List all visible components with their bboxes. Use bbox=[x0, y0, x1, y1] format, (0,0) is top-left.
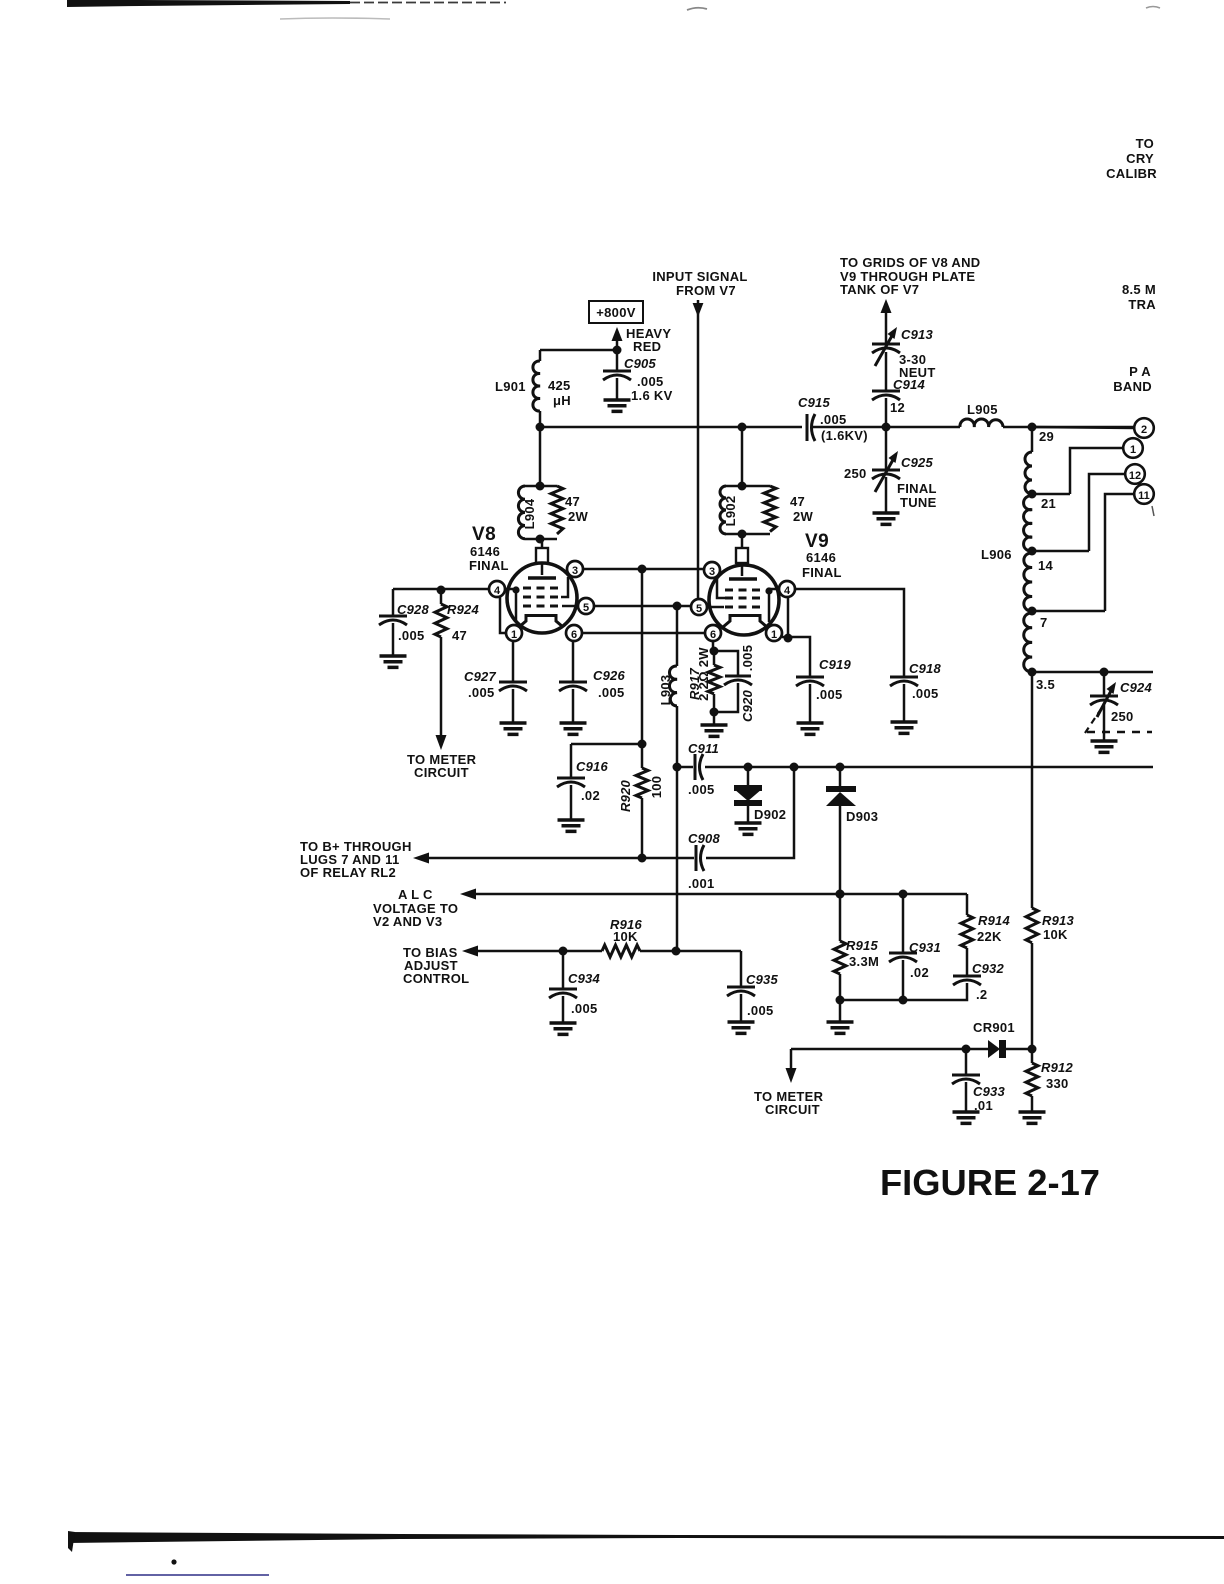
scan bar bottom bbox=[68, 1532, 680, 1543]
junction bbox=[836, 996, 845, 1005]
wire bbox=[712, 641, 715, 651]
wire bbox=[885, 427, 888, 470]
wire bbox=[769, 589, 779, 622]
svg-text:.005: .005 bbox=[571, 1001, 598, 1016]
wire bbox=[1031, 1049, 1034, 1063]
svg-text:3.3M: 3.3M bbox=[849, 954, 879, 969]
wire bbox=[885, 477, 888, 513]
junction bbox=[171, 1559, 176, 1564]
svg-text:29: 29 bbox=[1039, 429, 1054, 444]
symbol stroke bbox=[559, 681, 587, 684]
svg-text:47: 47 bbox=[565, 494, 580, 509]
ground bbox=[550, 1023, 577, 1034]
solid bar bbox=[734, 800, 762, 806]
svg-text:250: 250 bbox=[1111, 709, 1134, 724]
V8 pin4 left bus with junction bbox=[393, 586, 489, 595]
pin4 internal bbox=[505, 589, 516, 622]
svg-text:C926: C926 bbox=[593, 668, 625, 683]
svg-text:R915: R915 bbox=[846, 938, 878, 953]
grid choke L903 bbox=[658, 606, 677, 952]
wire bbox=[839, 894, 842, 941]
svg-text:L904: L904 bbox=[522, 498, 537, 529]
svg-text:C914: C914 bbox=[893, 377, 925, 392]
svg-text:1: 1 bbox=[1130, 444, 1136, 456]
junction bbox=[962, 1045, 971, 1054]
ground bbox=[1091, 741, 1118, 752]
svg-text:12: 12 bbox=[1129, 470, 1141, 482]
arrowhead bbox=[693, 303, 704, 317]
junction bbox=[899, 890, 908, 899]
svg-text:TUNE: TUNE bbox=[900, 495, 937, 510]
svg-text:4: 4 bbox=[494, 585, 501, 597]
pin circle bbox=[691, 599, 707, 615]
symbol stroke bbox=[1026, 1063, 1038, 1096]
svg-text:C913: C913 bbox=[901, 327, 933, 342]
svg-text:12: 12 bbox=[890, 400, 905, 415]
resistor R914 and C932 bbox=[961, 894, 1010, 976]
wire bbox=[525, 486, 557, 539]
junction bbox=[673, 763, 682, 772]
wire bbox=[706, 767, 794, 858]
svg-text:3: 3 bbox=[572, 565, 578, 577]
tube V9 6146 bbox=[691, 531, 842, 641]
wire bbox=[641, 798, 644, 858]
trimmer C913 bbox=[872, 299, 936, 380]
inductor L906 with taps bbox=[981, 427, 1105, 692]
wire bbox=[809, 684, 812, 723]
wire bbox=[1032, 427, 1134, 428]
wire bbox=[740, 951, 743, 987]
junction bbox=[638, 565, 647, 574]
tube V8 6146 bbox=[469, 524, 594, 641]
svg-text:P A: P A bbox=[1129, 364, 1151, 379]
symbol stroke bbox=[557, 777, 585, 780]
wire bbox=[1032, 493, 1070, 496]
terminal 11 bbox=[1105, 484, 1154, 611]
solid bar bbox=[826, 786, 856, 792]
V9 grid choke L902 with 47 ohm 2W resistor bbox=[720, 427, 814, 539]
symbol stroke bbox=[727, 991, 755, 996]
svg-text:3: 3 bbox=[709, 566, 715, 578]
ground bbox=[953, 1112, 980, 1123]
arrowhead bbox=[436, 735, 447, 750]
svg-text:L901: L901 bbox=[495, 379, 526, 394]
symbol stroke bbox=[872, 395, 900, 400]
wire bbox=[440, 637, 443, 736]
trimmer C925 final tune bbox=[844, 427, 937, 524]
svg-text:R924: R924 bbox=[447, 602, 479, 617]
svg-text:47: 47 bbox=[452, 628, 467, 643]
wire bbox=[839, 974, 842, 1022]
wire bbox=[541, 539, 544, 548]
symbol stroke bbox=[557, 782, 585, 787]
svg-text:(1.6KV): (1.6KV) bbox=[821, 428, 868, 443]
capacitor C920 bbox=[714, 645, 755, 722]
svg-text:FINAL: FINAL bbox=[802, 565, 842, 580]
symbol stroke bbox=[701, 845, 705, 871]
wire bbox=[562, 951, 565, 989]
symbol stroke bbox=[890, 681, 918, 686]
capacitor C931 bbox=[889, 894, 941, 1005]
svg-text:2W: 2W bbox=[568, 509, 589, 524]
resistor R913 bbox=[1026, 908, 1074, 943]
junction bbox=[710, 647, 719, 656]
svg-text:L906: L906 bbox=[981, 547, 1012, 562]
wire bbox=[539, 427, 542, 486]
svg-text:R920: R920 bbox=[618, 779, 633, 811]
svg-text:6: 6 bbox=[710, 629, 716, 641]
diode triangle bbox=[826, 792, 856, 806]
arrowhead bbox=[462, 946, 478, 957]
wire bbox=[428, 857, 694, 860]
svg-text:C905: C905 bbox=[624, 356, 656, 371]
capacitor C915 bbox=[798, 395, 868, 443]
symbol stroke bbox=[603, 375, 631, 380]
svg-text:3.5: 3.5 bbox=[1036, 677, 1055, 692]
ground bbox=[891, 722, 918, 733]
junction bbox=[744, 763, 753, 772]
svg-text:D903: D903 bbox=[846, 809, 878, 824]
ground bbox=[797, 723, 824, 734]
capacitor C928 bbox=[379, 589, 429, 667]
wire bbox=[540, 426, 802, 429]
wire bbox=[1103, 703, 1106, 741]
solid bar bbox=[999, 1040, 1006, 1058]
wire bbox=[1032, 671, 1153, 674]
symbol stroke bbox=[1024, 496, 1032, 551]
svg-text:+800V: +800V bbox=[596, 305, 635, 320]
symbol stroke bbox=[872, 469, 900, 472]
wire bbox=[1006, 1048, 1032, 1051]
ground bbox=[500, 723, 527, 734]
wire bbox=[570, 744, 573, 778]
svg-text:.005: .005 bbox=[637, 374, 664, 389]
grids (dashed) bbox=[523, 588, 561, 606]
svg-text:L902: L902 bbox=[723, 496, 738, 527]
wire bbox=[1105, 494, 1134, 611]
svg-text:D902: D902 bbox=[754, 807, 786, 822]
svg-text:1: 1 bbox=[511, 629, 517, 641]
wire bbox=[512, 641, 515, 682]
box bbox=[589, 301, 643, 323]
ground bbox=[604, 400, 631, 411]
capacitor C905 bbox=[603, 350, 673, 411]
svg-text:10K: 10K bbox=[1043, 927, 1068, 942]
svg-text:V9: V9 bbox=[805, 531, 829, 552]
svg-text:C931: C931 bbox=[909, 940, 941, 955]
symbol stroke bbox=[806, 414, 809, 441]
wire bbox=[795, 589, 904, 677]
svg-text:.005: .005 bbox=[912, 686, 939, 701]
svg-text:CIRCUIT: CIRCUIT bbox=[414, 765, 469, 780]
svg-text:7: 7 bbox=[1040, 615, 1048, 630]
svg-text:R912: R912 bbox=[1041, 1060, 1073, 1075]
wire bbox=[885, 311, 888, 344]
capacitor C932 bbox=[840, 961, 1004, 1002]
svg-text:1: 1 bbox=[771, 629, 777, 641]
capacitor C919 bbox=[782, 597, 851, 734]
svg-text:14: 14 bbox=[1038, 558, 1054, 573]
wire bbox=[839, 767, 842, 787]
wire bbox=[902, 894, 905, 953]
svg-text:V2 AND V3: V2 AND V3 bbox=[373, 914, 442, 929]
symbol stroke bbox=[1025, 452, 1032, 494]
grid to pin5 bbox=[562, 605, 578, 608]
svg-text:47: 47 bbox=[790, 494, 805, 509]
wire bbox=[813, 426, 960, 429]
wire bbox=[717, 578, 725, 598]
wire bbox=[572, 641, 575, 682]
wire bbox=[676, 606, 679, 666]
wire bbox=[539, 350, 542, 361]
svg-text:INPUT SIGNAL: INPUT SIGNAL bbox=[652, 269, 747, 284]
symbol stroke bbox=[700, 754, 704, 780]
wire bbox=[787, 597, 790, 638]
svg-text:C911: C911 bbox=[688, 741, 719, 756]
wire bbox=[1031, 943, 1034, 1049]
wire bbox=[965, 1082, 968, 1112]
svg-text:5: 5 bbox=[583, 602, 589, 614]
junction bbox=[836, 890, 845, 899]
svg-text:TO GRIDS OF V8 AND: TO GRIDS OF V8 AND bbox=[840, 255, 980, 270]
wire bbox=[741, 563, 744, 576]
junction bbox=[790, 763, 799, 772]
wire bbox=[1070, 448, 1123, 494]
terminal 2 bbox=[1032, 418, 1154, 444]
wire bbox=[676, 706, 679, 952]
symbol stroke bbox=[952, 1079, 980, 1084]
wire bbox=[747, 806, 750, 823]
solid bar bbox=[680, 1535, 1224, 1539]
ground bbox=[701, 725, 728, 736]
symbol stroke bbox=[953, 980, 981, 985]
symbol stroke bbox=[499, 681, 527, 684]
ground bbox=[873, 513, 900, 524]
wire bbox=[1032, 550, 1089, 553]
wire bbox=[1089, 474, 1125, 551]
symbol stroke bbox=[533, 361, 540, 411]
symbol stroke bbox=[669, 666, 677, 706]
svg-text:CALIBR: CALIBR bbox=[1106, 166, 1157, 181]
wire bbox=[475, 893, 967, 896]
svg-text:OF RELAY RL2: OF RELAY RL2 bbox=[300, 865, 396, 880]
figure caption bbox=[880, 1162, 1100, 1203]
pin 4 to pin 1 link bbox=[500, 597, 506, 633]
wire bbox=[714, 683, 738, 712]
svg-text:C928: C928 bbox=[397, 602, 429, 617]
svg-text:11: 11 bbox=[1138, 490, 1150, 502]
capacitor C918 bbox=[795, 589, 941, 733]
resistor R912 bbox=[1019, 1049, 1074, 1123]
wire bbox=[1103, 672, 1106, 696]
symbol stroke bbox=[812, 414, 816, 441]
svg-text:C925: C925 bbox=[901, 455, 933, 470]
wire bbox=[1031, 427, 1034, 452]
svg-text:.005: .005 bbox=[598, 685, 625, 700]
pin circle bbox=[1123, 438, 1143, 458]
PA tank output bus bbox=[1032, 668, 1153, 677]
solid bar bbox=[68, 1531, 75, 1552]
wire bbox=[641, 744, 644, 768]
resistor R924 to meter bbox=[407, 590, 479, 780]
pin circle bbox=[766, 625, 782, 641]
svg-text:C934: C934 bbox=[568, 971, 600, 986]
solid bar bbox=[734, 785, 762, 791]
svg-text:BAND: BAND bbox=[1113, 379, 1152, 394]
B+ feed line with C908 bbox=[300, 767, 794, 880]
plate bbox=[541, 563, 544, 575]
pin circles bbox=[567, 561, 583, 577]
svg-text:.02: .02 bbox=[910, 965, 929, 980]
ground bbox=[558, 820, 585, 831]
svg-text:100: 100 bbox=[649, 776, 664, 799]
pin circle bbox=[489, 581, 505, 597]
terminal 12 bbox=[1089, 464, 1145, 551]
wire bbox=[697, 300, 700, 599]
junction bbox=[899, 996, 908, 1005]
svg-text:CONTROL: CONTROL bbox=[403, 971, 469, 986]
arrowhead bbox=[786, 1068, 797, 1083]
pin circle bbox=[1134, 418, 1154, 438]
arrowhead bbox=[889, 451, 899, 463]
svg-text:CRY: CRY bbox=[1126, 151, 1154, 166]
svg-text:.005: .005 bbox=[816, 687, 843, 702]
symbol stroke bbox=[1090, 695, 1118, 698]
wire bbox=[726, 486, 770, 534]
pin circle bbox=[704, 562, 720, 578]
symbol stroke bbox=[379, 615, 407, 618]
wire bbox=[705, 766, 1153, 769]
symbol stroke bbox=[764, 486, 776, 532]
screen dropping line / C916 and R920 bbox=[557, 569, 647, 831]
diode CR901 bbox=[988, 1040, 1000, 1058]
symbol stroke bbox=[559, 686, 587, 691]
junction bbox=[836, 890, 845, 899]
svg-text:μH: μH bbox=[553, 393, 571, 408]
wire bbox=[571, 743, 642, 746]
svg-text:C908: C908 bbox=[688, 831, 720, 846]
svg-text:C915: C915 bbox=[798, 395, 830, 410]
wire bbox=[966, 948, 969, 976]
symbol stroke bbox=[961, 915, 973, 948]
symbol stroke bbox=[695, 845, 698, 871]
resistor R915 bbox=[827, 894, 880, 1033]
arrowhead bbox=[460, 889, 476, 900]
arrowhead bbox=[888, 327, 898, 339]
wire bbox=[713, 651, 716, 665]
wire bbox=[477, 950, 602, 953]
pen line blue bbox=[126, 1574, 269, 1576]
wire bbox=[840, 983, 967, 1000]
wire bbox=[747, 767, 750, 786]
svg-text:C924: C924 bbox=[1120, 680, 1152, 695]
svg-text:FROM V7: FROM V7 bbox=[676, 283, 736, 298]
wire bbox=[616, 350, 619, 371]
symbol stroke bbox=[636, 768, 648, 798]
symbol stroke bbox=[1026, 908, 1038, 943]
symbol stroke bbox=[603, 370, 631, 373]
svg-text:R913: R913 bbox=[1042, 913, 1074, 928]
symbol stroke bbox=[379, 620, 407, 625]
svg-text:22K: 22K bbox=[977, 929, 1002, 944]
bias line with R916 bbox=[403, 917, 741, 986]
pin circle bbox=[705, 625, 721, 641]
svg-text:6146: 6146 bbox=[806, 550, 836, 565]
capacitor C926 bbox=[559, 641, 625, 734]
capacitor C908 bbox=[688, 831, 720, 891]
wire bbox=[572, 689, 575, 723]
junction bbox=[784, 634, 793, 643]
svg-text:.005: .005 bbox=[820, 412, 847, 427]
junction bbox=[882, 423, 891, 432]
svg-text:330: 330 bbox=[1046, 1076, 1069, 1091]
svg-text:21: 21 bbox=[1041, 496, 1056, 511]
svg-text:TO: TO bbox=[1136, 136, 1154, 151]
ALC line bbox=[373, 887, 967, 929]
symbol stroke bbox=[1090, 700, 1118, 705]
svg-text:C916: C916 bbox=[576, 759, 608, 774]
symbol stroke bbox=[952, 1074, 980, 1077]
ground bbox=[1019, 1112, 1046, 1123]
symbol stroke bbox=[720, 486, 726, 534]
svg-text:C935: C935 bbox=[746, 972, 778, 987]
svg-text:.005: .005 bbox=[740, 645, 755, 672]
diode D902 bbox=[734, 767, 786, 834]
svg-text:R914: R914 bbox=[978, 913, 1010, 928]
svg-text:C920: C920 bbox=[740, 689, 755, 721]
symbol stroke bbox=[953, 975, 981, 978]
svg-text:.001: .001 bbox=[688, 876, 715, 891]
junction bbox=[1028, 607, 1037, 616]
ground bbox=[560, 723, 587, 734]
svg-text:V8: V8 bbox=[472, 524, 496, 545]
wire bbox=[562, 996, 565, 1023]
wire bbox=[791, 1048, 988, 1051]
inductor L901 bbox=[495, 350, 571, 427]
symbol stroke bbox=[890, 676, 918, 679]
wire bbox=[616, 378, 619, 400]
junction bbox=[765, 587, 772, 594]
symbol stroke bbox=[872, 348, 900, 353]
wire bbox=[641, 569, 644, 744]
symbol stroke bbox=[872, 390, 900, 393]
wire bbox=[393, 588, 489, 591]
arrowhead bbox=[413, 853, 429, 864]
svg-text:C918: C918 bbox=[909, 661, 941, 676]
svg-text:2: 2 bbox=[1141, 424, 1147, 436]
svg-text:2.2Ω 2W: 2.2Ω 2W bbox=[696, 647, 711, 701]
wire bbox=[539, 411, 542, 427]
svg-text:C919: C919 bbox=[819, 657, 851, 672]
capacitor C911 bbox=[688, 741, 719, 797]
wire bbox=[782, 637, 810, 677]
trimmer C924 bbox=[1085, 672, 1152, 752]
svg-text:RED: RED bbox=[633, 339, 661, 354]
junction bbox=[1028, 490, 1037, 499]
junction bbox=[1028, 668, 1037, 677]
svg-text:FINAL: FINAL bbox=[897, 481, 937, 496]
capacitor C934 bbox=[549, 951, 600, 1034]
symbol stroke bbox=[1024, 613, 1032, 672]
svg-text:.005: .005 bbox=[747, 1003, 774, 1018]
svg-text:A L C: A L C bbox=[398, 887, 433, 902]
svg-text:4: 4 bbox=[784, 585, 791, 597]
svg-text:250: 250 bbox=[844, 466, 867, 481]
wire bbox=[1003, 426, 1134, 429]
svg-text:.005: .005 bbox=[688, 782, 715, 797]
symbol stroke bbox=[796, 676, 824, 679]
wire bbox=[741, 534, 744, 548]
